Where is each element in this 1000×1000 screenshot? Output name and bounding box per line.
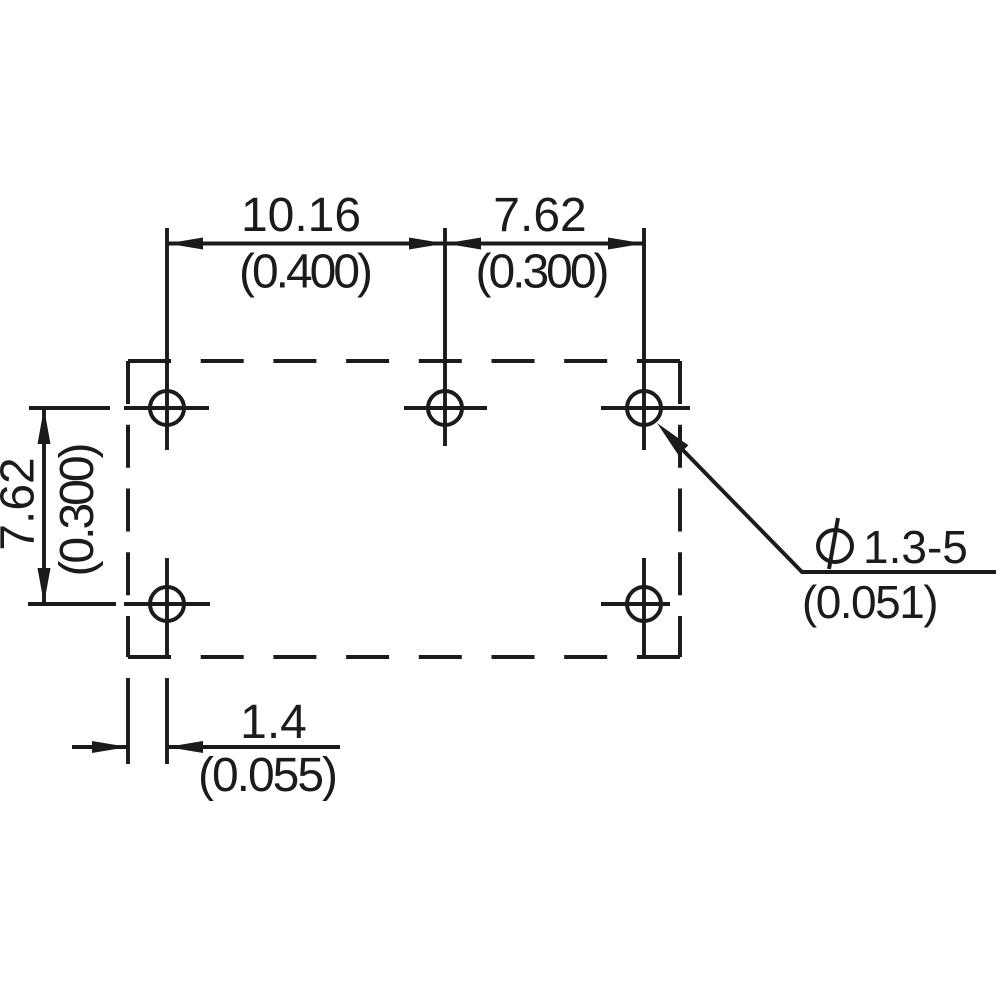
- svg-text:(0.300): (0.300): [51, 444, 104, 576]
- svg-text:(0.055): (0.055): [198, 749, 336, 802]
- svg-text:10.16: 10.16: [241, 189, 361, 242]
- svg-text:(0.051): (0.051): [802, 576, 937, 628]
- svg-text:1.3-5: 1.3-5: [863, 521, 968, 573]
- svg-text:7.62: 7.62: [0, 457, 45, 550]
- svg-text:(0.300): (0.300): [475, 246, 607, 299]
- svg-text:7.62: 7.62: [493, 189, 586, 242]
- svg-text:1.4: 1.4: [240, 696, 307, 749]
- svg-text:(0.400): (0.400): [239, 246, 371, 299]
